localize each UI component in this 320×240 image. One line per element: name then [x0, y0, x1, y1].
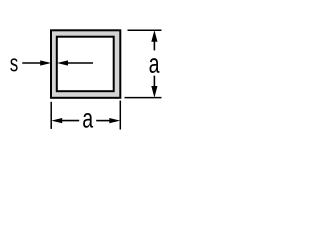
upward arrowhead — [151, 30, 157, 42]
wall thickness leader line (left of s arrow) — [22, 62, 43, 64]
top extension line of vertical dimension a — [128, 29, 162, 31]
rightward dimension arrow shaft — [96, 120, 112, 122]
bottom extension line of vertical dimension a — [125, 97, 162, 99]
downward dimension arrow shaft — [153, 76, 155, 87]
left extension line of horizontal dimension a — [50, 102, 52, 129]
leftward arrowhead — [51, 118, 62, 123]
leftward dimension arrow shaft — [60, 120, 79, 122]
right extension line of horizontal dimension a — [119, 101, 121, 130]
label a (vertical dimension) — [150, 58, 160, 73]
arrowhead pointing right at outer wall face — [40, 60, 51, 65]
rightward arrowhead — [109, 118, 120, 123]
upward dimension arrow shaft — [153, 41, 155, 51]
label a (horizontal dimension) — [83, 113, 93, 128]
downward arrowhead — [151, 86, 157, 98]
wall thickness inner leader line — [66, 62, 93, 64]
label s — [10, 58, 17, 71]
square hollow section outer contour — [51, 30, 120, 98]
arrowhead pointing left at inner wall face — [57, 60, 68, 65]
square hollow section inner contour — [57, 37, 114, 91]
